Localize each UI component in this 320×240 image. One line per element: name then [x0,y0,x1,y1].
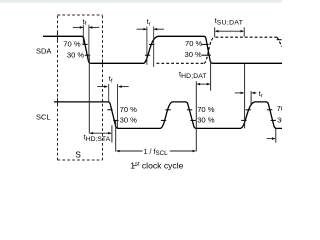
svg-text:70 %: 70 % [197,105,215,114]
svg-text:30 %: 30 % [184,50,202,59]
svg-text:tHD;DAT: tHD;DAT [179,69,207,80]
tick SDA fall1 30% [85,54,90,56]
1/fSCL left arrow [117,150,143,152]
tSU;DAT arrow [216,30,243,32]
svg-text:SCL: SCL [36,113,51,122]
svg-text:70 %: 70 % [63,40,81,49]
tSU;DAT left tick [214,27,216,37]
SDA dashed high segment [216,36,278,38]
svg-text:SDA: SDA [36,46,51,55]
svg-text:tSU;DAT: tSU;DAT [215,16,244,27]
long vertical at SCL rise3 (tSU;DAT reference) [244,64,246,129]
tHD;DAT arrow [198,83,210,85]
svg-text:70 %: 70 % [277,104,282,113]
tf1 guide verticals [82,25,84,45]
bottom-right vertical from SCL fall3 [275,128,277,142]
tick SDA fall1 70% [82,43,87,45]
SCL tf arrows [97,86,129,88]
tick where box right edge crosses SDA low [102,59,104,67]
tHD;STA right tick [111,125,113,142]
SCL tf guide verticals [108,84,110,103]
tick SCL rise2 70% [165,109,170,111]
tick SDA rise1 70% [149,43,154,45]
tick where box edge crosses SCL high [57,98,59,106]
SDA solid trace [43,36,282,63]
svg-text:1 / fSCL: 1 / fSCL [144,147,169,157]
tSU;DAT right tick [243,27,245,36]
tick SCL rise2 30% [161,119,166,121]
tick+leader SDA trans2 30% [202,54,211,56]
tr1 arrows [137,28,164,30]
underline under st superscript [133,164,137,166]
tick SCL fall1 30% [113,119,118,121]
dashed box START condition S [58,15,103,160]
svg-text:tf: tf [83,17,87,27]
tHD;DAT left long vertical [195,81,197,151]
SCL solid trace [54,102,282,128]
1/fSCL right arrow [170,150,195,152]
svg-text:70 %: 70 % [185,39,203,48]
tf1 arrows [73,26,100,28]
bottom-right arrow [267,138,275,140]
svg-text:30 %: 30 % [277,115,282,124]
svg-text:tr: tr [147,17,151,27]
tick+leader SDA trans2 70% [202,43,209,45]
tick SCL fall2 70% [187,109,192,111]
top page band [0,0,282,3]
tick on right dashed edge [277,39,282,41]
svg-text:tHD;STA: tHD;STA [84,133,111,144]
tick SCL rise3 30% [241,119,246,121]
tr1 guide verticals [146,27,148,65]
tick SCL fall2 30% [190,119,195,121]
SDA dashed rising edge [204,37,215,63]
tick SDA rise1 30% [145,54,150,56]
tick SCL fall1 70% [107,109,112,111]
tHD;STA arrow [91,132,111,134]
tHD;DAT right tick [210,61,212,91]
tHD;STA long vertical from SDA fall [88,56,90,133]
1/fSCL left vertical [115,120,117,151]
tick SCL fall3 70% [267,109,272,111]
svg-text:tf: tf [109,74,113,84]
svg-text:tr: tr [259,89,263,99]
tick where box edge crosses SDA high [57,32,59,40]
svg-text:1st clock cycle: 1st clock cycle [130,161,183,171]
SCL tr right guide vertical [250,91,252,105]
SCL tr arrow [235,92,244,94]
tick SCL fall3 30% [271,119,276,121]
svg-text:30 %: 30 % [67,50,85,59]
svg-text:S: S [75,149,81,159]
svg-text:30 %: 30 % [120,116,138,125]
svg-text:30 %: 30 % [197,116,215,125]
tick SCL rise3 70% [246,109,251,111]
svg-text:70 %: 70 % [120,105,138,114]
SDA dashed low segment [157,62,205,64]
SDA dashed falling edge at right edge [277,37,282,47]
